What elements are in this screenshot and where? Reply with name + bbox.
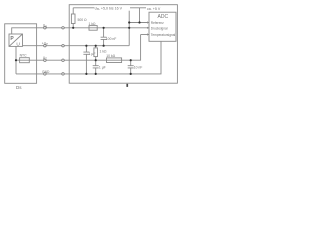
- wire GND (wire4): [16, 41, 161, 74]
- junction dot C2/wire2: [85, 45, 87, 47]
- arrow drucksignal input: [147, 27, 149, 29]
- resistor R4 wires: [95, 46, 97, 61]
- temperatur wire into ADC: [141, 34, 149, 36]
- capacitor C2: [83, 46, 89, 74]
- svg-text:UB: UB: [43, 24, 47, 29]
- resistor R1 pull-up wires: [72, 8, 74, 28]
- label supply rail backing: [94, 5, 130, 10]
- svg-text:UT: UT: [43, 56, 47, 61]
- resistor R3 bridge series body: [20, 58, 30, 63]
- electronics module enclosure box: [69, 5, 177, 84]
- junction dot referenz/link: [128, 21, 130, 23]
- svg-text:1 µF: 1 µF: [89, 52, 96, 56]
- terminal circle wire3 right: [62, 59, 64, 61]
- terminal circle wire4 left: [44, 73, 46, 75]
- svg-text:Temperatursignal: Temperatursignal: [151, 33, 176, 37]
- capacitor C1: [101, 28, 107, 46]
- terminal circle wire1 left: [44, 27, 46, 29]
- junction dot C1/wire2: [103, 45, 105, 47]
- sensor module enclosure box: [5, 24, 37, 84]
- svg-text:UB, +5,0 bis 16 V: UB, +5,0 bis 16 V: [95, 6, 123, 11]
- terminal circle wire2 right: [62, 45, 64, 47]
- svg-text:U: U: [16, 42, 20, 48]
- arrow temperatursignal input: [147, 33, 149, 35]
- label T under right box: [126, 84, 128, 87]
- junction dot C4/wire4: [130, 73, 132, 75]
- junction dot bridge node: [15, 59, 17, 61]
- svg-text:1 kΩ: 1 kΩ: [89, 22, 97, 26]
- terminal circle wire2 left: [44, 45, 46, 47]
- svg-text:Drucksignal: Drucksignal: [151, 27, 168, 31]
- terminal circle wire3 left: [44, 59, 46, 61]
- svg-text:500 Ω: 500 Ω: [78, 18, 88, 22]
- capacitor C4: [128, 60, 134, 74]
- terminal circle wire1 right: [62, 27, 64, 29]
- svg-text:Referenz: Referenz: [151, 21, 164, 25]
- wire stub from transducer bottom: [15, 46, 17, 74]
- svg-text:10 nF: 10 nF: [134, 66, 143, 70]
- capacitor C3: [93, 60, 99, 74]
- svg-text:GND: GND: [42, 70, 50, 74]
- transducer P/U symbol box: [9, 34, 23, 46]
- supply rail UB: [73, 7, 146, 9]
- svg-text:+UP: +UP: [42, 42, 48, 47]
- svg-text:100 nF: 100 nF: [106, 37, 117, 41]
- junction dot C3/wire4: [95, 73, 97, 75]
- referenz wire: [129, 22, 149, 24]
- junction dot R4/wire3: [95, 59, 97, 61]
- junction dot R4/wire2: [95, 45, 97, 47]
- wire UT (wire3): [16, 35, 141, 61]
- svg-text:1 µF: 1 µF: [99, 66, 106, 70]
- ADC box: [149, 12, 176, 41]
- resistor R4 divider body: [94, 48, 98, 57]
- svg-text:Ds: Ds: [16, 85, 22, 90]
- transducer diagonal: [9, 34, 23, 46]
- resistor R1 body: [71, 14, 75, 24]
- svg-text:NTC: NTC: [20, 54, 28, 58]
- vertical link rail to wire2: [128, 8, 130, 46]
- vertical reference tap: [139, 8, 141, 23]
- junction dot referenz/tap: [138, 21, 140, 23]
- svg-text:ADC: ADC: [158, 14, 169, 20]
- junction dot C4/wire3: [130, 59, 132, 61]
- resistor R2 series body: [89, 26, 97, 31]
- terminal circle wire4 right: [62, 73, 64, 75]
- junction dot R1/wire1: [72, 27, 74, 29]
- svg-text:P: P: [10, 36, 14, 42]
- wire UP (wire2): [23, 45, 130, 47]
- svg-text:ca. +5 V: ca. +5 V: [147, 7, 161, 11]
- wire UB (wire1): [12, 28, 149, 34]
- svg-text:10 kΩ: 10 kΩ: [106, 54, 115, 58]
- junction dot link/wire1: [128, 27, 130, 29]
- arrow referenz input: [147, 21, 149, 23]
- junction dot C2/wire4: [85, 73, 87, 75]
- junction dot C1/wire1: [103, 27, 105, 29]
- resistor R5 body in wire3: [107, 58, 122, 63]
- svg-text:1 kΩ: 1 kΩ: [100, 50, 108, 54]
